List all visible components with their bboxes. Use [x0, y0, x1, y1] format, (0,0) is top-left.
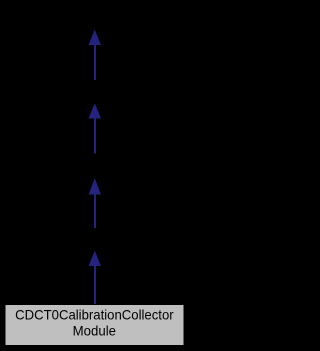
inheritance diagram for CDCT0CalibrationCollectorModule [0, 0, 189, 351]
node Module (invisible: black on black) [60, 81, 129, 105]
inheritance arrow 2 (HistoModule -> Module) [89, 105, 100, 155]
svg-text:Module: Module [73, 323, 116, 338]
node PathElement (invisible: black on black) [45, 6, 144, 30]
inheritance arrow 1 (Module -> PathElement) [89, 31, 100, 81]
node CalibrationCollectorModule (invisible: black on black) [30, 229, 159, 252]
inheritance arrow 4 (CDCT0CalibrationCollectorModule -> CalibrationCollectorModule) [89, 252, 100, 305]
inheritance arrow 3 (CalibrationCollectorModule -> HistoModule) [89, 180, 100, 230]
svg-text:CDCT0CalibrationCollector: CDCT0CalibrationCollector [15, 308, 174, 323]
node CDCT0CalibrationCollectorModule (current node, gray box) [5, 305, 184, 346]
node HistoModule (invisible: black on black) [52, 154, 137, 178]
